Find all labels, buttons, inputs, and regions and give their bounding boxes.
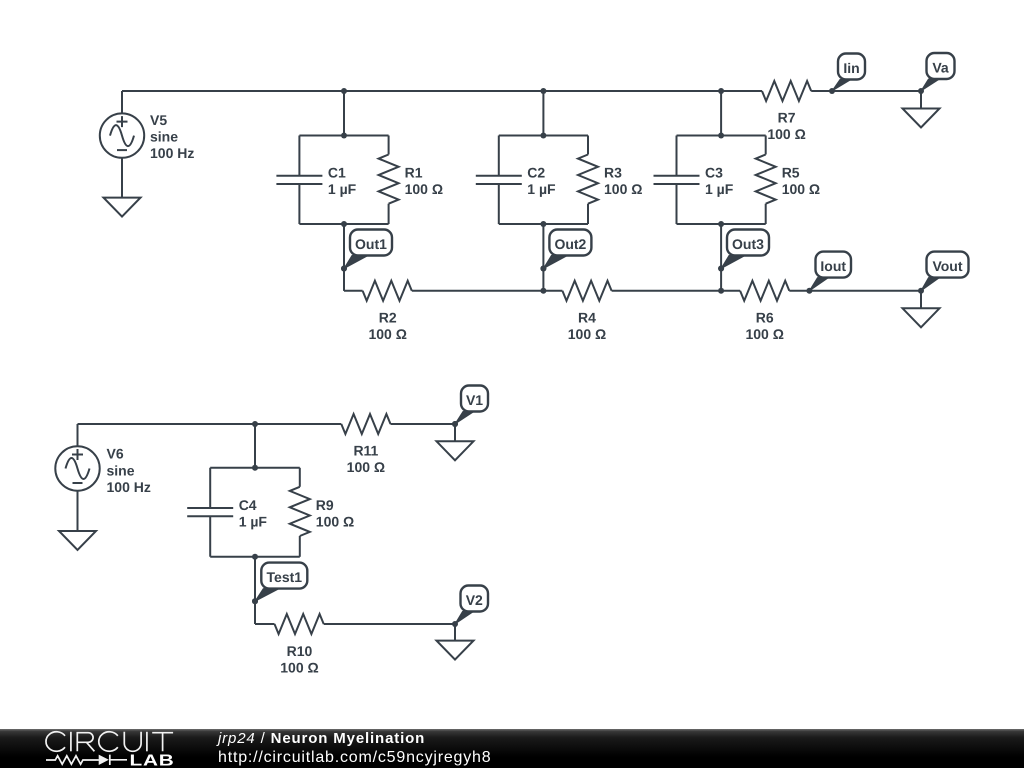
- svg-text:C4: C4: [239, 497, 257, 513]
- svg-text:100 Ω: 100 Ω: [347, 459, 385, 475]
- svg-text:sine: sine: [150, 129, 178, 145]
- svg-text:Va: Va: [932, 60, 949, 76]
- svg-text:V1: V1: [466, 392, 483, 408]
- svg-text:R3: R3: [604, 165, 622, 181]
- svg-text:1 µF: 1 µF: [705, 181, 734, 197]
- svg-text:100 Hz: 100 Hz: [107, 479, 151, 495]
- svg-text:V2: V2: [466, 592, 483, 608]
- svg-text:1 µF: 1 µF: [328, 181, 357, 197]
- svg-text:100 Ω: 100 Ω: [316, 513, 354, 529]
- svg-text:Iin: Iin: [843, 60, 859, 76]
- svg-text:Out2: Out2: [554, 236, 586, 252]
- svg-text:100 Ω: 100 Ω: [767, 126, 805, 142]
- svg-text:C3: C3: [705, 165, 723, 181]
- svg-text:Out1: Out1: [355, 236, 387, 252]
- svg-text:R9: R9: [316, 497, 334, 513]
- svg-text:1 µF: 1 µF: [527, 181, 556, 197]
- svg-text:100 Ω: 100 Ω: [745, 326, 783, 342]
- svg-text:V6: V6: [107, 446, 124, 462]
- svg-text:R5: R5: [782, 165, 800, 181]
- svg-text:100 Ω: 100 Ω: [368, 326, 406, 342]
- svg-text:100 Ω: 100 Ω: [604, 181, 642, 197]
- svg-text:R2: R2: [379, 310, 397, 326]
- svg-text:100 Ω: 100 Ω: [568, 326, 606, 342]
- svg-text:sine: sine: [107, 462, 135, 478]
- svg-text:100 Ω: 100 Ω: [280, 659, 318, 675]
- svg-text:LAB: LAB: [130, 751, 175, 768]
- svg-text:Vout: Vout: [932, 258, 962, 274]
- svg-text:R10: R10: [287, 643, 313, 659]
- svg-text:Out3: Out3: [732, 236, 764, 252]
- svg-text:Iout: Iout: [820, 258, 846, 274]
- svg-text:1 µF: 1 µF: [239, 513, 268, 529]
- svg-text:100 Ω: 100 Ω: [405, 181, 443, 197]
- svg-text:R4: R4: [578, 310, 596, 326]
- svg-text:R11: R11: [353, 443, 378, 459]
- svg-text:R6: R6: [756, 310, 774, 326]
- svg-text:C1: C1: [328, 165, 346, 181]
- svg-text:V5: V5: [150, 112, 167, 128]
- svg-text:R7: R7: [778, 109, 796, 125]
- svg-text:Test1: Test1: [267, 569, 303, 585]
- svg-text:100 Hz: 100 Hz: [150, 145, 194, 161]
- svg-text:R1: R1: [405, 165, 423, 181]
- svg-text:C2: C2: [527, 165, 545, 181]
- svg-text:100 Ω: 100 Ω: [782, 181, 820, 197]
